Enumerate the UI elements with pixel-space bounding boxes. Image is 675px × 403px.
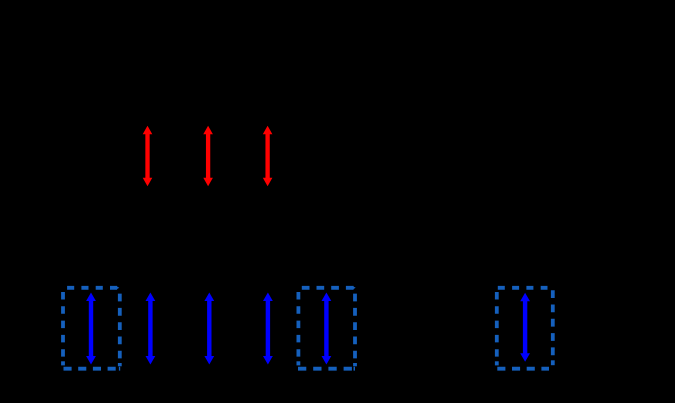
blue spin arrow 1 (lower level)	[86, 293, 96, 365]
blue spin arrow 2 (lower level)	[146, 293, 156, 365]
blue spin arrow 4 (lower level)	[263, 293, 273, 365]
dashed highlight box 3 (around blue arrow 6)	[497, 288, 553, 369]
red spin arrow 2 (upper level)	[203, 126, 213, 187]
blue spin arrow 6 (isolated, right)	[520, 293, 530, 362]
blue spin arrow 3 (lower level)	[204, 293, 214, 365]
dashed highlight box 1 (around blue arrow 1)	[63, 286, 120, 371]
dashed highlight box 2 (around blue arrow 5)	[298, 286, 356, 371]
red spin arrow 1 (upper level)	[143, 126, 153, 187]
red spin arrow 3 (upper level)	[263, 126, 273, 187]
blue spin arrow 5 (lower level)	[322, 293, 332, 365]
